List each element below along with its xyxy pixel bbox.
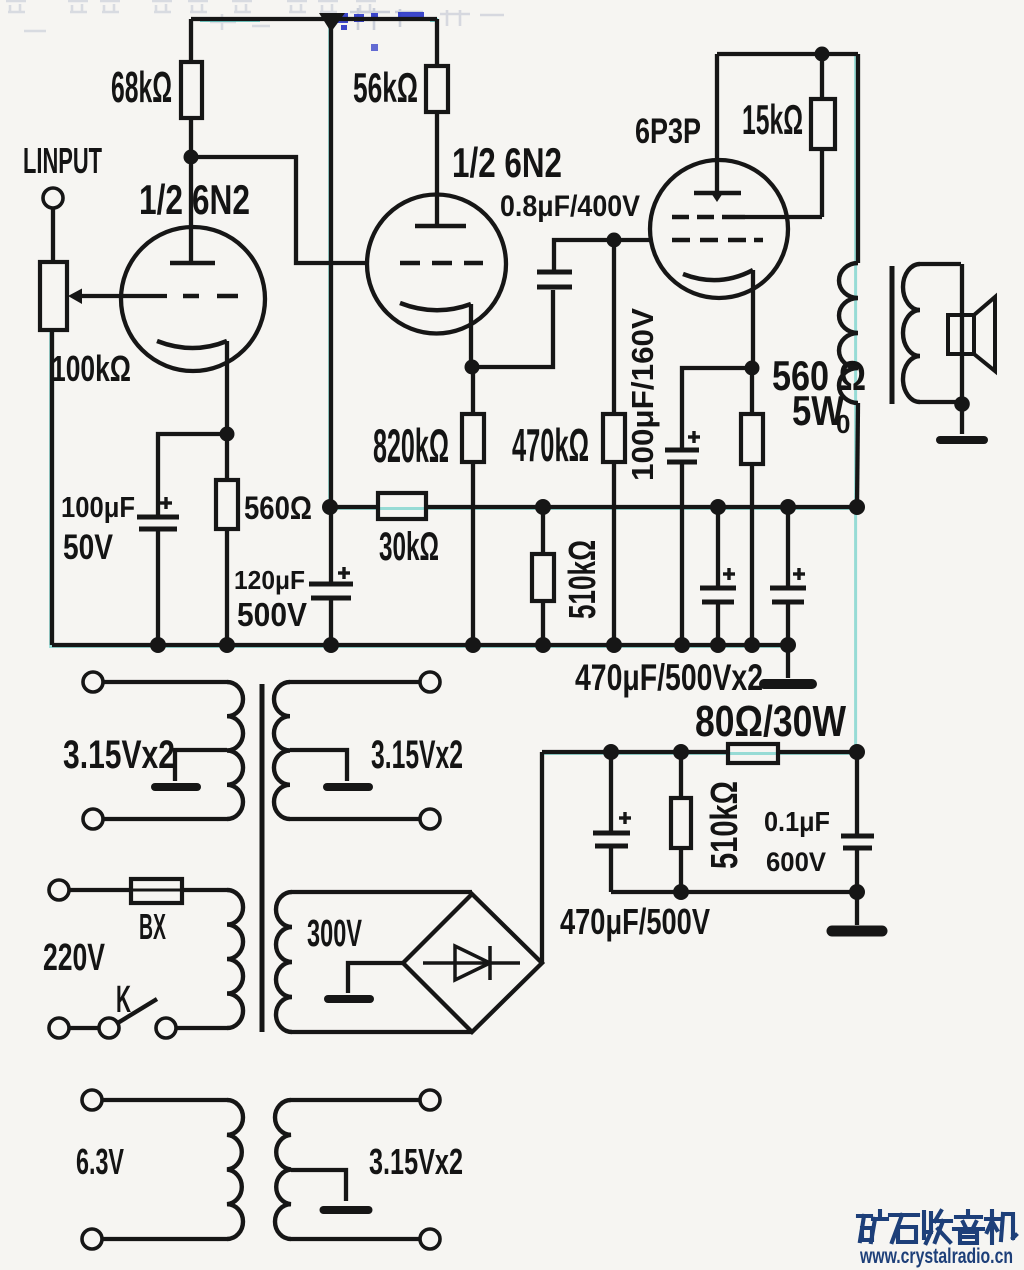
- svg-text:500V: 500V: [237, 596, 307, 633]
- capacitor C8 0.1uF/600V: [841, 752, 874, 892]
- fuse BX: [131, 879, 227, 903]
- svg-text:3.15Vx2: 3.15Vx2: [63, 733, 175, 777]
- ground psu: [832, 892, 882, 931]
- svg-text:80Ω/30W: 80Ω/30W: [695, 697, 846, 746]
- svg-text:120μF: 120μF: [234, 565, 305, 595]
- svg-text:510kΩ: 510kΩ: [704, 781, 746, 869]
- svg-text:K: K: [116, 979, 131, 1021]
- svg-text:15kΩ: 15kΩ: [742, 96, 803, 143]
- label 1/2 6N2 second triode: [452, 139, 562, 186]
- transformer T2 primary winding: [839, 54, 858, 507]
- label 80/30W value: [695, 697, 846, 746]
- label 3.15Vx2 bottom: [369, 1141, 463, 1182]
- speaker: [948, 264, 995, 404]
- label 100uF/160V: [625, 308, 660, 481]
- resistor R3 560&#937; cathode V1a: [216, 434, 238, 645]
- capacitor C3 0.8uF/400V coupling: [472, 240, 652, 367]
- resistor R4 30k&#937; decoupling: [330, 493, 543, 519]
- label BX: [139, 906, 166, 947]
- transformer T1 core: [260, 684, 265, 1032]
- label 100uF 50V: [61, 492, 135, 567]
- wire psu filter return: [611, 884, 865, 900]
- svg-text:1/2 6N2: 1/2 6N2: [139, 176, 250, 223]
- ground bridge negative: [328, 963, 403, 999]
- wiper arrow of potentiometer: [68, 289, 167, 305]
- svg-text:0.1μF: 0.1μF: [764, 806, 830, 837]
- transformer T1 heater winding 6.3V: [82, 1090, 243, 1249]
- resistor R11 510k&#937; bleeder psu: [671, 752, 691, 892]
- svg-text:56kΩ: 56kΩ: [353, 64, 418, 111]
- svg-text:30kΩ: 30kΩ: [379, 525, 439, 569]
- resistor R9 560&#937; 5W cathode: [741, 368, 763, 645]
- capacitor C5 470uF/500V filter a: [700, 507, 736, 645]
- wire bridge output to filter: [540, 752, 544, 963]
- svg-text:470μF/500V: 470μF/500V: [560, 901, 710, 942]
- svg-text:560Ω: 560Ω: [244, 490, 312, 526]
- svg-text:www.crystalradio.cn: www.crystalradio.cn: [859, 1245, 1013, 1268]
- node speaker return junction: [954, 396, 970, 412]
- svg-text:510kΩ: 510kΩ: [562, 540, 604, 619]
- label 510k bleeder: [562, 540, 604, 619]
- tube V1b cathode: [400, 303, 471, 367]
- svg-text:3.15Vx2: 3.15Vx2: [371, 733, 463, 777]
- svg-text:3.15Vx2: 3.15Vx2: [369, 1141, 463, 1182]
- node cathode V1b junction: [465, 360, 480, 375]
- resistor R2 56k&#937;: [426, 19, 448, 226]
- ground speaker return: [940, 404, 984, 440]
- label 3.15Vx2 right: [371, 733, 463, 777]
- label 15k value: [742, 96, 803, 143]
- wire ground bus: [52, 637, 796, 653]
- label 510k psu: [704, 781, 746, 869]
- tube V2 anode plate: [694, 54, 741, 202]
- ground center tap right heater: [290, 750, 369, 787]
- watermark url crystalradio: [859, 1245, 1013, 1268]
- label 470uF/500Vx2: [575, 657, 763, 698]
- svg-text:6.3V: 6.3V: [76, 1141, 124, 1182]
- tube V1b anode plate: [415, 224, 466, 229]
- label 560 value: [244, 490, 312, 526]
- stray mark zero: [836, 409, 850, 439]
- node A anode V1a / junction dot: [184, 150, 199, 165]
- resistor R6 470k&#937; grid leak: [603, 240, 625, 645]
- switch K: [49, 999, 176, 1038]
- svg-text:BX: BX: [139, 906, 166, 947]
- svg-text:50V: 50V: [63, 528, 114, 567]
- label 560 Ohm 5W: [772, 352, 866, 434]
- bridge rectifier D1: [403, 894, 542, 1032]
- label 0.1uF 600V: [764, 806, 830, 877]
- node grid 6P3P junction: [607, 233, 622, 248]
- label K: [116, 979, 131, 1021]
- svg-text:LINPUT: LINPUT: [23, 140, 102, 181]
- svg-text:100μF/160V: 100μF/160V: [625, 308, 660, 481]
- label 220V: [43, 937, 105, 979]
- resistor R8 15k&#937; screen: [811, 54, 835, 217]
- svg-text:300V: 300V: [307, 913, 362, 955]
- tube V1a 1/2 6N2 envelope: [121, 227, 265, 371]
- node cathode V1a junction: [220, 427, 235, 442]
- svg-text:6P3P: 6P3P: [635, 112, 701, 151]
- label 470k value: [512, 419, 589, 471]
- transformer T1 heater winding 3.15Vx2 right: [274, 672, 440, 829]
- label 6P3P: [635, 112, 701, 151]
- label 820k value: [373, 419, 449, 472]
- svg-text:0: 0: [836, 409, 850, 439]
- transformer T1 primary winding 220V: [176, 890, 243, 1028]
- svg-text:470μF/500Vx2: 470μF/500Vx2: [575, 657, 763, 698]
- tube V1a anode plate: [170, 157, 215, 263]
- label 100k value: [51, 348, 131, 389]
- svg-text:220V: 220V: [43, 937, 105, 979]
- capacitor C4 100uF/160V cathode bypass: [665, 368, 752, 645]
- transformer T1 heater winding 3.15Vx2 left: [83, 672, 243, 829]
- ground main bus: [764, 645, 812, 684]
- resistor R7 510k&#937; bleeder: [532, 499, 554, 645]
- tube V2 6P3P envelope: [650, 160, 788, 298]
- svg-text:0.8μF/400V: 0.8μF/400V: [500, 190, 640, 223]
- label 56k value: [353, 64, 418, 111]
- resistor R10 80&#937;/30W dropper: [728, 744, 778, 763]
- tube V2 control grid dashes: [672, 238, 763, 243]
- ground center tap bottom heater: [291, 1170, 369, 1210]
- capacitor C7 470uF/500V reservoir: [593, 752, 631, 892]
- capacitor C6 470uF/500V filter b: [770, 507, 806, 645]
- svg-text:600V: 600V: [766, 847, 826, 877]
- svg-text:470kΩ: 470kΩ: [512, 419, 589, 471]
- svg-text:100kΩ: 100kΩ: [51, 348, 131, 389]
- label 30k value: [379, 525, 439, 569]
- tube V2 screen grid: [672, 215, 822, 220]
- wire top supply rail node: [191, 13, 437, 263]
- wire B+ dropper column to 120uF: [329, 263, 333, 507]
- transformer T2 core: [890, 266, 895, 404]
- tube V1a grid dashes: [183, 294, 238, 299]
- label LINPUT: [23, 140, 102, 181]
- terminal mains live: [49, 880, 131, 900]
- ground center tap left heater: [155, 750, 227, 787]
- tube V1b 1/2 6N2 envelope: [367, 195, 506, 334]
- label 470uF/500V: [560, 901, 710, 942]
- resistor R5 820k&#937; cathode load: [462, 367, 484, 645]
- capacitor C1 100uF/50V cathode bypass: [137, 434, 227, 645]
- capacitor C2 120uF/500V decoupling: [309, 499, 353, 645]
- transformer T1 heater winding 3.15Vx2 bottom: [275, 1090, 440, 1249]
- node cathode 6P3P junction: [745, 361, 760, 376]
- tube V1a cathode: [157, 341, 227, 434]
- wire anode V1a to grid V1b jog: [191, 157, 367, 263]
- wire B+ bus: [543, 499, 865, 515]
- label 1/2 6N2 first triode: [139, 176, 250, 223]
- label 0.8uF/400V: [500, 190, 640, 223]
- tube V2 cathode: [683, 270, 753, 368]
- label 6.3V: [76, 1141, 124, 1182]
- tube V1b grid dashes: [400, 261, 483, 266]
- label 300V: [307, 913, 362, 955]
- transformer T1 HV winding 300V: [276, 892, 472, 1032]
- resistor R1 68k&#937;: [181, 19, 202, 157]
- label 68k value: [111, 63, 172, 112]
- label 120uF 500V: [234, 565, 307, 633]
- svg-text:820kΩ: 820kΩ: [373, 419, 449, 472]
- wire rectified B+ rail: [542, 744, 865, 760]
- potentiometer RP 100k volume: [40, 262, 67, 645]
- watermark logo kuangshi shouyinji: [858, 1211, 1016, 1243]
- svg-text:100μF: 100μF: [61, 492, 135, 524]
- svg-text:68kΩ: 68kΩ: [111, 63, 172, 112]
- svg-text:1/2 6N2: 1/2 6N2: [452, 139, 562, 186]
- label 3.15Vx2 left: [63, 733, 175, 777]
- terminal input jack: [43, 188, 63, 262]
- transformer T2 secondary winding: [903, 264, 961, 402]
- wire top node anode 6P3P: [717, 47, 858, 62]
